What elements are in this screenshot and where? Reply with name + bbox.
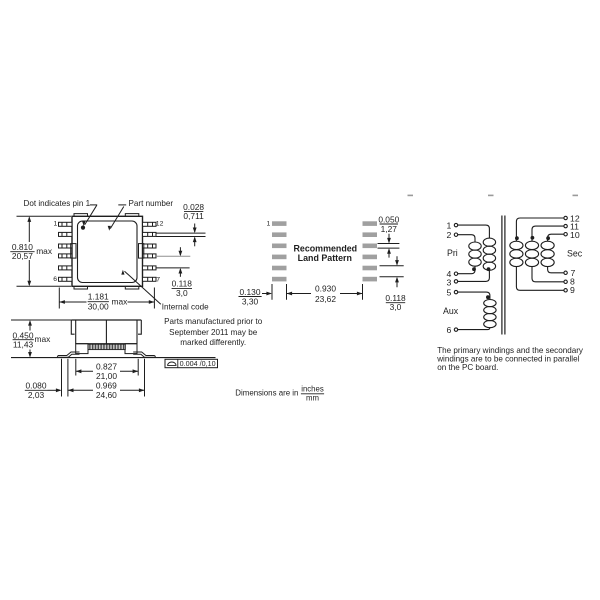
svg-text:September 2011 may be: September 2011 may be (169, 328, 258, 337)
side view center parting line (105, 320, 107, 344)
svg-text:10: 10 (570, 230, 580, 240)
svg-text:6: 6 (446, 325, 451, 335)
winding AUX (484, 300, 496, 307)
terminal pin 12 (564, 216, 567, 219)
package body inner rounded edge (78, 221, 138, 283)
terminal pin 8 (564, 280, 567, 283)
svg-text:5: 5 (446, 287, 451, 297)
pin 3 lead (59, 244, 73, 248)
seating plane line (11, 357, 216, 359)
dimension 0.450/11,43 max (height) (11, 320, 71, 358)
wire pin5 to winding AUX (458, 292, 490, 299)
svg-text:max: max (35, 334, 52, 344)
page artifact dash 3 (573, 195, 579, 197)
polarity dot P1 (472, 267, 476, 271)
winding S2 (525, 241, 538, 249)
svg-text:1: 1 (267, 221, 271, 228)
svg-text:6: 6 (53, 276, 57, 283)
pin number labels left (446, 220, 451, 335)
dimension 0.050/1,27 (pad height) (378, 214, 400, 257)
case seam tab left (71, 244, 76, 259)
svg-text:Aux: Aux (443, 306, 459, 316)
svg-text:Internal code: Internal code (162, 303, 209, 312)
svg-text:12: 12 (156, 221, 164, 228)
svg-text:1.181: 1.181 (88, 291, 109, 301)
side view left wall (75, 320, 77, 344)
wire winding S3 to pin10 (548, 234, 564, 241)
pin 2 lead (59, 232, 73, 236)
svg-text:1,27: 1,27 (381, 224, 398, 234)
svg-text:20,57: 20,57 (12, 251, 33, 261)
svg-text:0.930: 0.930 (315, 284, 336, 294)
svg-text:0.050: 0.050 (378, 214, 399, 224)
svg-text:Parts manufactured prior to: Parts manufactured prior to (164, 317, 263, 326)
pin 9 lead (143, 254, 157, 258)
terminal pin 7 (564, 271, 567, 274)
land pad left 5 (272, 266, 287, 271)
polarity dot S1 (515, 236, 519, 240)
svg-text:3,0: 3,0 (176, 288, 188, 298)
wire winding S1 to pin9 (516, 267, 564, 291)
terminal pin 4 (454, 272, 457, 275)
land pad left 6 (272, 277, 287, 282)
land pad right 8 (363, 266, 378, 271)
svg-text:2: 2 (446, 230, 451, 240)
case seam tab right (139, 244, 144, 259)
land pad left 3 (272, 244, 287, 249)
gull-wing lead right (133, 352, 155, 357)
svg-text:Dimensions are in: Dimensions are in (235, 389, 298, 398)
side view right wall (136, 320, 138, 344)
land pad right 9 (363, 255, 378, 260)
svg-text:11,43: 11,43 (13, 339, 34, 349)
callout: Dot indicates pin 1 (24, 199, 98, 226)
bottom tab right (125, 286, 139, 289)
svg-text:24,60: 24,60 (96, 390, 117, 400)
terminal pin 5 (454, 290, 457, 293)
svg-text:7: 7 (156, 277, 160, 284)
wire pin3 to winding P2 (458, 270, 490, 281)
polarity dot S3 (546, 236, 550, 240)
pin 1 index dot (81, 226, 85, 230)
svg-text:marked differently.: marked differently. (180, 338, 246, 347)
side view base line (76, 343, 137, 345)
wire winding S3 to pin7 (548, 267, 564, 273)
pin 11 lead (143, 232, 157, 236)
top tab right (125, 214, 139, 217)
pin number labels right (570, 213, 580, 295)
terminal pin 11 (564, 224, 567, 227)
svg-text:1: 1 (54, 221, 58, 228)
pin 12 lead (143, 222, 157, 226)
svg-text:Dot indicates pin 1: Dot indicates pin 1 (24, 199, 91, 208)
side view right skirt (138, 320, 141, 334)
land pad left 2 (272, 232, 287, 237)
callout: Internal code (121, 270, 209, 312)
svg-text:max: max (36, 246, 53, 256)
gull-wing lead left (57, 352, 79, 357)
dimension 0.080/2,03 (foot length) (25, 381, 62, 400)
svg-text:Part number: Part number (129, 199, 174, 208)
pin 10 lead (143, 244, 157, 248)
land pad right 10 (363, 244, 378, 249)
page artifact dash 2 (488, 195, 494, 197)
svg-text:Land Pattern: Land Pattern (298, 253, 352, 263)
svg-text:0.004 /0,10: 0.004 /0,10 (180, 359, 216, 368)
land pad right 12 (363, 221, 378, 226)
polarity dot P2 (487, 267, 491, 271)
svg-text:1: 1 (446, 220, 451, 230)
winding P1 (469, 242, 481, 250)
bobbin flange left (76, 344, 88, 354)
transformer core (501, 216, 503, 335)
terminal pin 10 (564, 233, 567, 236)
dimension 1.181/30,00 max (body width) (59, 288, 154, 312)
land pad right 11 (363, 232, 378, 237)
svg-text:0.827: 0.827 (96, 361, 117, 371)
land pad left 4 (272, 255, 287, 260)
dimension 0.969/24,60 (lead span outer) (62, 359, 145, 400)
package body outline (72, 216, 143, 286)
svg-text:3,30: 3,30 (242, 296, 259, 306)
svg-text:Pri: Pri (447, 248, 458, 258)
page artifact dash 1 (408, 195, 414, 197)
note: parallel connection (436, 346, 584, 372)
wire winding S2 to pin8 (532, 267, 564, 282)
svg-text:2,03: 2,03 (28, 390, 45, 400)
terminal pin 1 (454, 223, 457, 226)
wire pin6 to winding AUX (458, 327, 490, 329)
svg-text:3,0: 3,0 (390, 302, 402, 312)
top tab left (74, 214, 88, 217)
pin 6 lead (59, 277, 73, 281)
wire pin4 to winding P1 (458, 266, 475, 274)
svg-text:30,00: 30,00 (88, 301, 109, 311)
terminal pin 9 (564, 289, 567, 292)
pin 8 lead (143, 266, 157, 270)
polarity dot AUX (486, 295, 490, 299)
svg-text:23,62: 23,62 (315, 294, 336, 304)
winding hatch band (88, 344, 125, 349)
flatness callout 0.004/0,10 (165, 359, 218, 368)
pin 4 lead (59, 254, 73, 258)
svg-text:inches: inches (301, 384, 324, 393)
callout: Part number (108, 199, 174, 231)
terminal pin 2 (454, 233, 457, 236)
winding S3 (541, 241, 554, 249)
land pad left 1 (272, 221, 287, 226)
wire pin2 to winding P1 (458, 235, 475, 242)
land pad right 7 (363, 277, 378, 282)
terminal pin 3 (454, 280, 457, 283)
side view case top (71, 319, 141, 321)
svg-text:max: max (112, 297, 129, 307)
dimension 0.028/0,711 (lead thickness) (156, 202, 206, 246)
svg-text:Sec: Sec (567, 249, 583, 259)
dimension 0.930/23,62 (column gap) (287, 284, 363, 304)
dimension 0.827/21,00 (lead span inner) (76, 359, 138, 381)
svg-text:21,00: 21,00 (96, 371, 117, 381)
pin 7 lead (143, 277, 157, 281)
pin 1 lead (59, 222, 73, 226)
dimension 0.118/3,0 (pad pitch) (380, 256, 407, 312)
side view left skirt (71, 320, 74, 334)
svg-text:on the PC board.: on the PC board. (437, 363, 498, 372)
note: units (235, 384, 324, 402)
winding S1 (510, 241, 523, 249)
bobbin flange right (125, 344, 137, 354)
polarity dot S2 (531, 236, 535, 240)
svg-text:9: 9 (570, 285, 575, 295)
svg-text:0,711: 0,711 (183, 211, 204, 221)
bottom tab left (74, 286, 88, 289)
wire pin1 to winding P2 (458, 225, 490, 238)
dimension 0.130/3,30 (pad width) (239, 284, 287, 306)
svg-text:3: 3 (446, 277, 451, 287)
terminal pin 6 (454, 328, 457, 331)
svg-text:mm: mm (306, 394, 319, 403)
wire winding S2 to pin11 (532, 226, 564, 241)
svg-text:Recommended: Recommended (293, 243, 357, 253)
wire winding S1 to pin12 (516, 218, 564, 241)
winding P2 (483, 238, 495, 246)
dimension 0.810/20,57 max (body height) (10, 216, 71, 286)
dimension 0.118/3,0 (lead pitch, top view) (156, 247, 192, 298)
pin 5 lead (59, 266, 73, 270)
note: marking (164, 317, 263, 347)
